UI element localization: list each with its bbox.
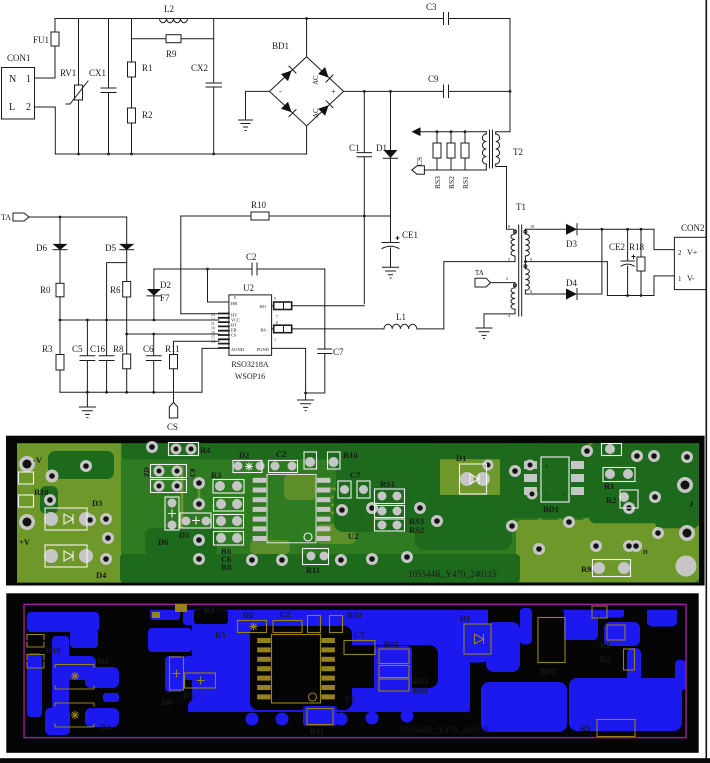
svg-text:R4: R4 bbox=[200, 445, 211, 455]
svg-text:ZD: ZD bbox=[143, 467, 151, 477]
resistor R18 bbox=[629, 229, 645, 295]
svg-text:D2: D2 bbox=[239, 450, 249, 460]
svg-text:D6: D6 bbox=[158, 537, 168, 547]
wire T2 top feed bbox=[509, 19, 512, 132]
svg-text:HO: HO bbox=[260, 304, 267, 309]
wire CON1 pin2 to bus bbox=[35, 107, 56, 154]
capacitor C2 bbox=[154, 252, 325, 275]
svg-text:RS1: RS1 bbox=[384, 639, 399, 649]
net CS upper bbox=[412, 157, 487, 174]
diode D5 bbox=[105, 217, 134, 253]
varistor RV1 bbox=[60, 19, 88, 155]
svg-text:-: - bbox=[279, 87, 282, 96]
bridge rectifier BD1 bbox=[270, 41, 344, 126]
capacitor C6 bbox=[143, 334, 161, 392]
net CS lower bbox=[167, 402, 178, 432]
svg-text:CON2: CON2 bbox=[681, 223, 705, 233]
svg-text:D4: D4 bbox=[566, 278, 577, 288]
svg-text:R3: R3 bbox=[215, 630, 225, 640]
diode D4 bbox=[566, 228, 603, 300]
wire HV rail bbox=[344, 90, 510, 93]
svg-text:R11: R11 bbox=[165, 344, 180, 354]
svg-text:2: 2 bbox=[678, 249, 682, 257]
wire bridge top bbox=[305, 17, 308, 57]
page right border bbox=[706, 0, 708, 763]
svg-text:V-: V- bbox=[687, 274, 695, 283]
pcb top pad holes bbox=[23, 444, 692, 563]
pcb top copper mid-olive wash bbox=[250, 474, 356, 554]
svg-text:R8: R8 bbox=[221, 562, 231, 572]
svg-text:C7: C7 bbox=[354, 630, 365, 640]
svg-text:R8: R8 bbox=[113, 344, 124, 354]
svg-text:1: 1 bbox=[678, 275, 682, 283]
pcb top silkscreen outlines bbox=[19, 443, 639, 577]
svg-text:RSO3218A: RSO3218A bbox=[231, 360, 269, 369]
wire center tap bbox=[524, 260, 607, 295]
svg-text:105544R_Y470_240115: 105544R_Y470_240115 bbox=[400, 725, 489, 735]
svg-text:T1: T1 bbox=[516, 202, 526, 212]
svg-text:H: H bbox=[643, 550, 648, 556]
svg-text:1: 1 bbox=[26, 74, 31, 85]
diode D3 bbox=[566, 224, 654, 249]
svg-text:L1: L1 bbox=[396, 312, 406, 322]
svg-text:HB: HB bbox=[231, 301, 237, 306]
svg-text:BS: BS bbox=[260, 328, 266, 333]
svg-text:AGND: AGND bbox=[231, 347, 245, 352]
svg-text:R18: R18 bbox=[34, 487, 49, 497]
diode D2 bbox=[147, 269, 171, 320]
transformer T2 bbox=[482, 130, 523, 170]
svg-text:AC: AC bbox=[312, 108, 320, 118]
svg-text:C1: C1 bbox=[349, 143, 360, 153]
svg-text:D4: D4 bbox=[96, 570, 107, 580]
svg-text:R6: R6 bbox=[110, 285, 121, 295]
capacitor CX2 bbox=[191, 19, 222, 155]
pcb top-side board bbox=[17, 443, 699, 582]
svg-text:CS: CS bbox=[415, 157, 424, 166]
pcb top olive traces bbox=[182, 466, 575, 530]
wire rail2 bbox=[132, 38, 214, 40]
svg-text:R10: R10 bbox=[251, 200, 267, 210]
svg-text:10: 10 bbox=[211, 327, 215, 331]
svg-text:R2: R2 bbox=[600, 654, 610, 664]
svg-text:R4: R4 bbox=[204, 605, 215, 615]
svg-text:8: 8 bbox=[508, 224, 510, 229]
svg-text:FU1: FU1 bbox=[33, 35, 49, 45]
svg-text:10: 10 bbox=[530, 224, 534, 229]
svg-text:R18: R18 bbox=[629, 242, 645, 252]
ground U2 bbox=[298, 393, 314, 411]
capacitor CE1 bbox=[382, 230, 418, 267]
resistor RS2 bbox=[447, 132, 456, 189]
svg-text:T2: T2 bbox=[513, 147, 523, 157]
diode D1 bbox=[376, 91, 398, 242]
svg-text:RV1: RV1 bbox=[60, 68, 76, 78]
svg-text:7: 7 bbox=[276, 315, 278, 319]
svg-text:R1: R1 bbox=[604, 481, 614, 491]
svg-text:F7: F7 bbox=[160, 293, 170, 303]
page bottom border bar bbox=[0, 758, 710, 763]
svg-text:+: + bbox=[331, 87, 336, 96]
fuse FU1 bbox=[33, 19, 59, 79]
svg-text:2: 2 bbox=[506, 276, 508, 281]
net TA bbox=[1, 213, 127, 222]
svg-text:C3: C3 bbox=[426, 2, 437, 12]
svg-text:CS: CS bbox=[167, 422, 178, 432]
wire mid bus bbox=[60, 319, 219, 322]
svg-text:+: + bbox=[545, 464, 549, 470]
svg-text:U2: U2 bbox=[348, 531, 358, 541]
diode D6 bbox=[36, 217, 68, 253]
svg-text:N: N bbox=[9, 74, 16, 85]
svg-text:R10: R10 bbox=[343, 450, 358, 460]
resistor R10 bbox=[181, 200, 391, 220]
svg-text:RS2: RS2 bbox=[409, 525, 424, 535]
wire L1 to T1 bbox=[444, 262, 515, 329]
svg-text:U2: U2 bbox=[345, 694, 355, 704]
pcb bottom silkscreen outlines bbox=[27, 606, 635, 737]
svg-text:14: 14 bbox=[211, 340, 215, 344]
svg-text:C16: C16 bbox=[90, 344, 106, 354]
capacitor C7 bbox=[306, 269, 344, 393]
svg-text:C7: C7 bbox=[333, 347, 344, 357]
svg-text:CX1: CX1 bbox=[89, 68, 106, 78]
net TA aux bbox=[475, 269, 491, 287]
pcb bottom copper islands bbox=[246, 608, 533, 726]
svg-text:CE1: CE1 bbox=[402, 230, 418, 240]
svg-text:11: 11 bbox=[211, 322, 215, 326]
svg-text:C2: C2 bbox=[246, 252, 257, 262]
svg-text:2: 2 bbox=[26, 102, 31, 113]
svg-text:D4: D4 bbox=[100, 722, 111, 732]
pcb bottom silkscreen labels bbox=[46, 605, 610, 736]
op-amp U1 IC U2 bbox=[229, 283, 272, 381]
svg-text:D5: D5 bbox=[105, 243, 116, 253]
wire top rail bbox=[55, 18, 510, 20]
svg-text:RS3: RS3 bbox=[433, 176, 442, 189]
svg-text:C7: C7 bbox=[350, 470, 361, 480]
capacitor CE2 bbox=[609, 229, 635, 295]
pcb top pads bbox=[19, 441, 697, 577]
capacitor C16 bbox=[90, 263, 127, 393]
svg-text:PGND: PGND bbox=[257, 347, 270, 352]
svg-text:R2: R2 bbox=[142, 110, 153, 120]
connector CON1 bbox=[2, 53, 35, 119]
wire output minus bbox=[607, 276, 674, 297]
svg-text:C9: C9 bbox=[428, 74, 439, 84]
svg-text:TA: TA bbox=[1, 213, 11, 222]
svg-text:12: 12 bbox=[211, 318, 215, 322]
svg-text:D1: D1 bbox=[456, 453, 466, 463]
svg-text:D6: D6 bbox=[36, 243, 47, 253]
svg-text:L2: L2 bbox=[164, 4, 174, 14]
svg-text:WSOP16: WSOP16 bbox=[235, 372, 265, 381]
capacitor C1 bbox=[349, 91, 372, 303]
svg-text:R9: R9 bbox=[581, 564, 591, 574]
svg-text:R1: R1 bbox=[600, 640, 610, 650]
ground main bbox=[79, 392, 95, 417]
wire secondary bottom bbox=[525, 293, 566, 295]
wire FB bus bbox=[127, 333, 219, 336]
pcb bottom copper pour blue regions bbox=[27, 605, 686, 736]
wire secondary top bbox=[525, 228, 566, 230]
transformer T1 bbox=[484, 202, 534, 328]
svg-text:-: - bbox=[562, 464, 564, 470]
svg-text:C5: C5 bbox=[72, 344, 83, 354]
resistor R8 bbox=[113, 333, 131, 393]
svg-text:R0: R0 bbox=[40, 285, 51, 295]
pcb bottom board outline (magenta) bbox=[24, 604, 686, 737]
svg-text:U2: U2 bbox=[243, 283, 254, 293]
capacitor C5 bbox=[72, 319, 95, 393]
svg-text:D3: D3 bbox=[566, 239, 577, 249]
resistor R11 bbox=[165, 341, 219, 402]
ground aux bbox=[476, 328, 492, 339]
svg-text:TA: TA bbox=[475, 269, 484, 277]
resistor RS3 bbox=[433, 132, 442, 189]
svg-text:R9: R9 bbox=[580, 723, 590, 733]
svg-text:8: 8 bbox=[530, 289, 532, 294]
resistor R3 bbox=[42, 319, 64, 393]
pcb top silkscreen labels bbox=[19, 445, 694, 580]
capacitor CX1 bbox=[89, 19, 116, 155]
svg-text:D2: D2 bbox=[160, 280, 171, 290]
svg-text:R18: R18 bbox=[46, 645, 61, 655]
wire bottom bus bbox=[55, 153, 306, 156]
svg-text:6: 6 bbox=[276, 321, 278, 325]
wire bridge bottom bbox=[306, 126, 308, 154]
svg-text:V+: V+ bbox=[687, 248, 698, 257]
svg-text:CX2: CX2 bbox=[191, 63, 208, 73]
svg-text:D3: D3 bbox=[92, 498, 102, 508]
wire ground bus bbox=[60, 348, 219, 393]
svg-text:C2: C2 bbox=[280, 609, 290, 619]
capacitor C9 bbox=[428, 74, 449, 98]
resistor R6 bbox=[110, 250, 131, 354]
pcb top copper olive pours bbox=[17, 443, 699, 582]
svg-text:-V: -V bbox=[33, 455, 43, 465]
svg-text:R9: R9 bbox=[166, 49, 177, 59]
svg-text:C8: C8 bbox=[189, 468, 197, 477]
resistor RS1 bbox=[461, 132, 470, 189]
svg-text:CS: CS bbox=[231, 333, 237, 338]
wire HV pin feed bbox=[181, 216, 219, 314]
ground at bridge bbox=[239, 91, 270, 130]
svg-text:CE2: CE2 bbox=[609, 242, 625, 252]
svg-text:9: 9 bbox=[274, 297, 276, 301]
svg-text:R3: R3 bbox=[211, 470, 221, 480]
inductor L2 bbox=[160, 4, 188, 23]
resistor R9 bbox=[166, 35, 181, 59]
svg-text:+V: +V bbox=[19, 537, 31, 547]
svg-text:+: + bbox=[562, 492, 566, 498]
svg-text:D1: D1 bbox=[376, 143, 387, 153]
svg-text:-: - bbox=[545, 492, 547, 498]
svg-text:D3: D3 bbox=[98, 656, 108, 666]
U2 right pin HO ferrite bbox=[272, 297, 365, 319]
pcb bottom etched black channels bbox=[26, 604, 684, 737]
pcb bottom-side photo frame bbox=[6, 593, 698, 753]
svg-text:16: 16 bbox=[211, 331, 215, 335]
svg-text:R11: R11 bbox=[310, 726, 324, 736]
svg-text:D1: D1 bbox=[460, 613, 470, 623]
inductor L1 bbox=[384, 312, 444, 329]
U2 left pin stubs bbox=[211, 296, 236, 348]
svg-text:RS2: RS2 bbox=[447, 176, 456, 189]
resistor R1 bbox=[128, 19, 153, 109]
svg-text:15: 15 bbox=[211, 336, 215, 340]
svg-text:AC: AC bbox=[312, 75, 320, 85]
svg-text:BD1: BD1 bbox=[540, 666, 556, 676]
connector CON2 bbox=[674, 223, 706, 290]
wire output plus bbox=[626, 228, 674, 250]
wire PGND bbox=[272, 348, 307, 394]
svg-text:RS1: RS1 bbox=[380, 479, 395, 489]
capacitor C3 bbox=[426, 2, 449, 25]
svg-text:R1: R1 bbox=[142, 63, 153, 73]
svg-text:R3: R3 bbox=[42, 344, 53, 354]
svg-text:C2: C2 bbox=[276, 449, 286, 459]
svg-text:105544R_Y470_240115: 105544R_Y470_240115 bbox=[408, 569, 497, 579]
svg-text:8: 8 bbox=[234, 296, 236, 300]
pcb top copper pour dark regions bbox=[40, 443, 699, 582]
svg-text:13: 13 bbox=[211, 313, 215, 317]
svg-text:R11: R11 bbox=[306, 565, 320, 575]
svg-text:D2: D2 bbox=[243, 610, 253, 620]
svg-text:D5: D5 bbox=[179, 530, 189, 540]
svg-text:CON1: CON1 bbox=[7, 53, 31, 63]
svg-text:C6: C6 bbox=[143, 344, 154, 354]
net arrow left bbox=[412, 127, 487, 136]
pcb top-side photo frame bbox=[6, 436, 705, 586]
wire HB bbox=[208, 269, 229, 302]
svg-text:R10: R10 bbox=[347, 610, 362, 620]
svg-text:D5: D5 bbox=[183, 690, 193, 700]
pcb bottom smd pads yellow bbox=[152, 604, 335, 699]
svg-text:5: 5 bbox=[508, 257, 510, 262]
svg-text:R2: R2 bbox=[606, 495, 616, 505]
svg-text:D6: D6 bbox=[162, 697, 172, 707]
svg-text:BD1: BD1 bbox=[543, 504, 559, 514]
svg-text:1: 1 bbox=[274, 338, 276, 342]
resistor R0 bbox=[40, 250, 64, 320]
ground CE1 bbox=[383, 267, 399, 278]
resistor R2 bbox=[128, 108, 153, 154]
U2 right pin BS ferrite bbox=[272, 321, 384, 342]
svg-text:L: L bbox=[9, 102, 15, 113]
svg-text:BD1: BD1 bbox=[272, 41, 289, 51]
wire T2 to T1 primary bbox=[424, 167, 513, 230]
svg-text:RS1: RS1 bbox=[461, 176, 470, 189]
svg-text:RS2: RS2 bbox=[413, 685, 428, 695]
